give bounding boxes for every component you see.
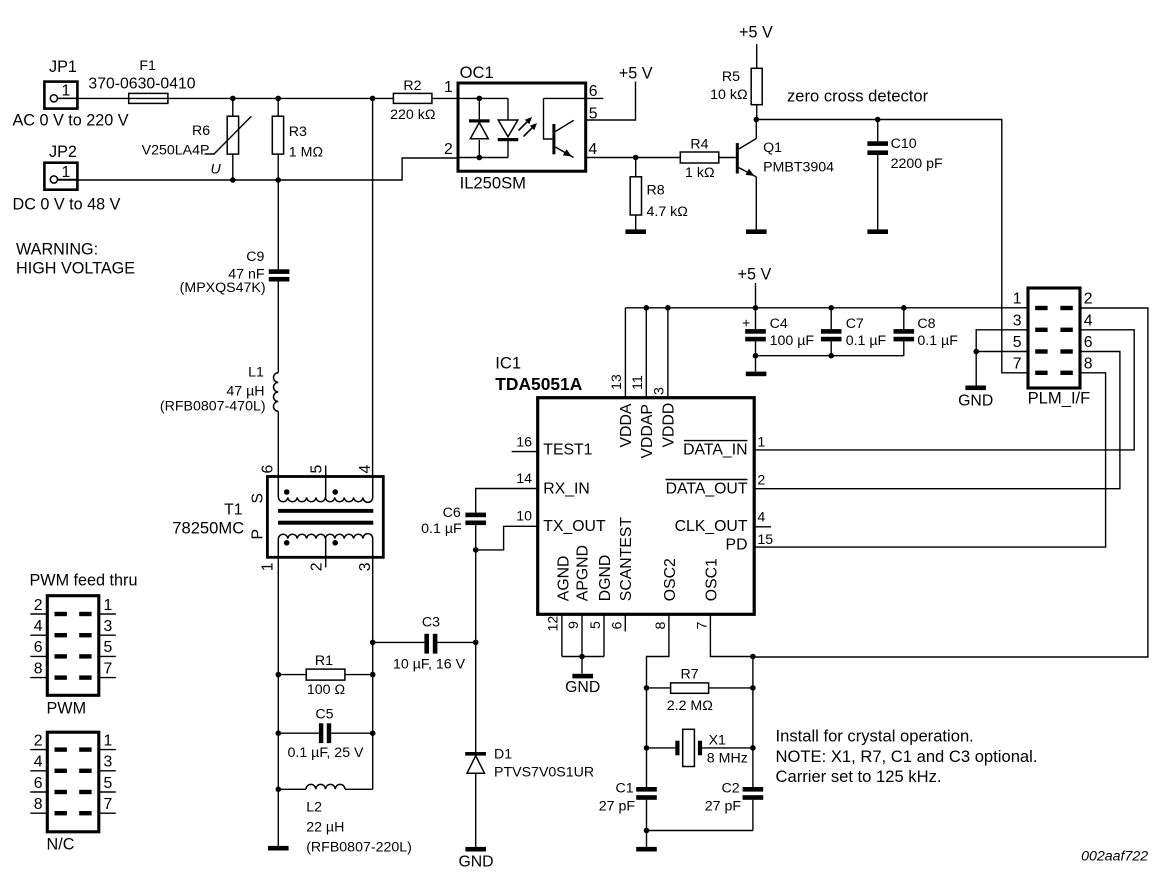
svg-text:TDA5051A: TDA5051A (495, 374, 582, 394)
svg-text:PTVS7V0S1UR: PTVS7V0S1UR (494, 765, 594, 781)
svg-text:27 pF: 27 pF (705, 798, 742, 814)
svg-text:X1: X1 (709, 732, 726, 748)
svg-text:OC1: OC1 (460, 63, 494, 82)
svg-text:R2: R2 (403, 78, 421, 94)
svg-text:R3: R3 (289, 124, 307, 140)
svg-text:RX_IN: RX_IN (543, 480, 590, 497)
svg-text:WARNING:: WARNING: (16, 241, 98, 259)
svg-text:C4: C4 (770, 316, 788, 332)
svg-text:APGND: APGND (575, 545, 592, 601)
svg-text:C6: C6 (443, 505, 461, 521)
svg-text:4: 4 (757, 510, 765, 526)
svg-text:5: 5 (588, 621, 604, 629)
svg-text:R6: R6 (192, 123, 210, 139)
svg-text:1: 1 (444, 79, 453, 96)
svg-text:C10: C10 (891, 136, 917, 152)
svg-text:2: 2 (1084, 291, 1093, 308)
svg-text:7: 7 (104, 660, 113, 677)
svg-text:002aaf722: 002aaf722 (1081, 849, 1148, 865)
svg-text:VDDD: VDDD (660, 403, 677, 448)
svg-text:C1: C1 (615, 781, 633, 797)
svg-text:5: 5 (309, 465, 326, 474)
svg-text:(RFB0807-470L): (RFB0807-470L) (160, 399, 266, 415)
svg-text:Carrier set to 125 kHz.: Carrier set to 125 kHz. (776, 767, 942, 786)
svg-text:5: 5 (589, 106, 598, 123)
svg-text:13: 13 (609, 374, 625, 390)
svg-text:+5 V: +5 V (739, 24, 773, 42)
svg-text:6: 6 (260, 465, 277, 474)
svg-text:6: 6 (610, 622, 626, 630)
svg-text:GND: GND (958, 393, 993, 410)
svg-text:C8: C8 (917, 316, 935, 332)
svg-text:TX_OUT: TX_OUT (543, 518, 606, 535)
svg-text:TEST1: TEST1 (543, 442, 592, 459)
svg-text:4: 4 (1084, 312, 1093, 329)
svg-text:GND: GND (565, 679, 600, 696)
svg-text:8: 8 (34, 660, 43, 677)
svg-text:AC 0 V to 220 V: AC 0 V to 220 V (13, 112, 129, 130)
svg-text:8 MHz: 8 MHz (707, 750, 748, 766)
svg-text:R7: R7 (681, 667, 699, 683)
svg-text:T1: T1 (224, 501, 243, 518)
svg-text:0.1 µF, 25 V: 0.1 µF, 25 V (287, 745, 364, 761)
svg-text:1 kΩ: 1 kΩ (685, 165, 715, 181)
svg-text:C3: C3 (422, 615, 440, 631)
svg-text:R8: R8 (647, 183, 665, 199)
svg-text:2: 2 (309, 563, 326, 572)
svg-text:(MPXQS47K): (MPXQS47K) (180, 280, 266, 296)
svg-text:7: 7 (695, 622, 711, 630)
svg-text:27 pF: 27 pF (599, 798, 636, 814)
svg-text:PWM feed thru: PWM feed thru (30, 571, 138, 589)
svg-text:D1: D1 (494, 747, 512, 763)
svg-text:+5 V: +5 V (619, 64, 653, 82)
svg-text:C2: C2 (721, 781, 739, 797)
svg-text:NOTE: X1, R7, C1 and C3 option: NOTE: X1, R7, C1 and C3 optional. (776, 747, 1038, 766)
svg-text:220 kΩ: 220 kΩ (390, 107, 435, 123)
svg-text:12: 12 (546, 616, 562, 632)
svg-text:2: 2 (757, 472, 765, 488)
svg-text:L1: L1 (248, 365, 264, 381)
svg-text:0.1 µF: 0.1 µF (917, 333, 958, 349)
svg-text:2200 pF: 2200 pF (891, 156, 943, 172)
svg-text:100 Ω: 100 Ω (307, 682, 345, 698)
svg-text:47 µH: 47 µH (226, 384, 264, 400)
svg-text:3: 3 (1013, 312, 1022, 329)
svg-text:V250LA4P: V250LA4P (142, 143, 210, 159)
svg-text:1: 1 (757, 434, 765, 450)
svg-text:CLK_OUT: CLK_OUT (675, 518, 748, 535)
svg-text:6: 6 (34, 639, 43, 656)
svg-text:7: 7 (104, 796, 113, 813)
svg-text:2: 2 (34, 732, 43, 749)
svg-text:C9: C9 (246, 249, 264, 265)
svg-text:SCANTEST: SCANTEST (618, 517, 635, 602)
svg-text:6: 6 (589, 83, 598, 100)
svg-text:IL250SM: IL250SM (460, 173, 526, 192)
svg-text:R1: R1 (315, 653, 333, 669)
svg-text:14: 14 (516, 471, 532, 487)
svg-text:PD: PD (726, 537, 748, 554)
svg-text:2.2 MΩ: 2.2 MΩ (667, 698, 713, 714)
svg-text:VDDA: VDDA (618, 403, 635, 447)
svg-text:10 µF, 16 V: 10 µF, 16 V (393, 657, 466, 673)
svg-text:S: S (249, 493, 266, 504)
svg-text:R4: R4 (690, 136, 708, 152)
svg-text:GND: GND (458, 854, 493, 871)
svg-text:78250MC: 78250MC (172, 518, 244, 537)
svg-text:1: 1 (104, 732, 113, 749)
svg-text:zero cross detector: zero cross detector (787, 87, 929, 106)
svg-text:3: 3 (104, 754, 113, 771)
svg-text:3: 3 (651, 387, 667, 395)
svg-text:OSC1: OSC1 (703, 558, 720, 601)
svg-text:8: 8 (34, 796, 43, 813)
svg-text:8: 8 (1084, 355, 1093, 372)
svg-text:(RFB0807-220L): (RFB0807-220L) (306, 839, 412, 855)
svg-text:DC 0 V to 48 V: DC 0 V to 48 V (13, 196, 121, 214)
svg-text:+5 V: +5 V (738, 265, 772, 283)
svg-text:9: 9 (566, 621, 582, 629)
svg-text:U: U (211, 162, 222, 178)
svg-text:Install for crystal operation.: Install for crystal operation. (776, 727, 974, 746)
svg-text:10 kΩ: 10 kΩ (710, 87, 747, 103)
svg-text:C5: C5 (315, 706, 333, 722)
svg-text:DGND: DGND (597, 555, 614, 602)
svg-text:VDDAP: VDDAP (639, 404, 656, 458)
svg-text:1: 1 (62, 164, 71, 181)
svg-text:1: 1 (260, 562, 277, 571)
svg-text:P: P (249, 529, 266, 540)
svg-text:IC1: IC1 (495, 354, 521, 373)
svg-text:Q1: Q1 (763, 140, 782, 156)
svg-text:370-0630-0410: 370-0630-0410 (88, 76, 195, 93)
svg-text:2: 2 (444, 141, 453, 158)
svg-text:DATA_OUT: DATA_OUT (666, 480, 748, 497)
svg-text:0.1 µF: 0.1 µF (421, 521, 462, 537)
svg-text:100 µF: 100 µF (770, 333, 815, 349)
svg-text:6: 6 (34, 775, 43, 792)
svg-text:1: 1 (1013, 291, 1022, 308)
svg-text:4: 4 (357, 465, 374, 474)
svg-text:F1: F1 (139, 58, 156, 74)
svg-text:3: 3 (104, 618, 113, 635)
svg-text:HIGH VOLTAGE: HIGH VOLTAGE (16, 260, 135, 278)
svg-text:PMBT3904: PMBT3904 (763, 159, 834, 175)
svg-text:22 µH: 22 µH (306, 820, 344, 836)
svg-text:JP2: JP2 (49, 143, 77, 161)
svg-text:1 MΩ: 1 MΩ (289, 144, 323, 160)
svg-text:OSC2: OSC2 (662, 558, 679, 601)
svg-text:10: 10 (516, 509, 532, 525)
svg-text:1: 1 (62, 83, 71, 100)
svg-text:R5: R5 (722, 69, 740, 85)
svg-text:4: 4 (34, 618, 43, 635)
svg-text:4: 4 (34, 754, 43, 771)
svg-text:5: 5 (1013, 334, 1022, 351)
svg-text:JP1: JP1 (49, 58, 77, 76)
svg-text:15: 15 (757, 532, 773, 548)
svg-text:+: + (742, 316, 750, 332)
svg-text:3: 3 (357, 562, 374, 571)
svg-text:6: 6 (1084, 334, 1093, 351)
svg-text:1: 1 (104, 597, 113, 614)
svg-text:8: 8 (653, 622, 669, 630)
svg-text:C7: C7 (846, 316, 864, 332)
svg-text:5: 5 (104, 639, 113, 656)
svg-text:16: 16 (516, 434, 532, 450)
svg-text:0.1 µF: 0.1 µF (846, 333, 887, 349)
svg-text:DATA_IN: DATA_IN (683, 442, 747, 459)
svg-text:11: 11 (630, 375, 646, 390)
svg-text:7: 7 (1013, 355, 1022, 372)
svg-text:4: 4 (588, 141, 597, 158)
svg-text:AGND: AGND (555, 556, 572, 602)
svg-text:PWM: PWM (47, 700, 87, 718)
svg-text:L2: L2 (306, 800, 322, 816)
svg-text:PLM_I/F: PLM_I/F (1028, 389, 1091, 408)
svg-text:N/C: N/C (47, 836, 75, 854)
svg-text:4.7 kΩ: 4.7 kΩ (647, 204, 688, 220)
svg-text:5: 5 (104, 775, 113, 792)
svg-text:2: 2 (34, 597, 43, 614)
